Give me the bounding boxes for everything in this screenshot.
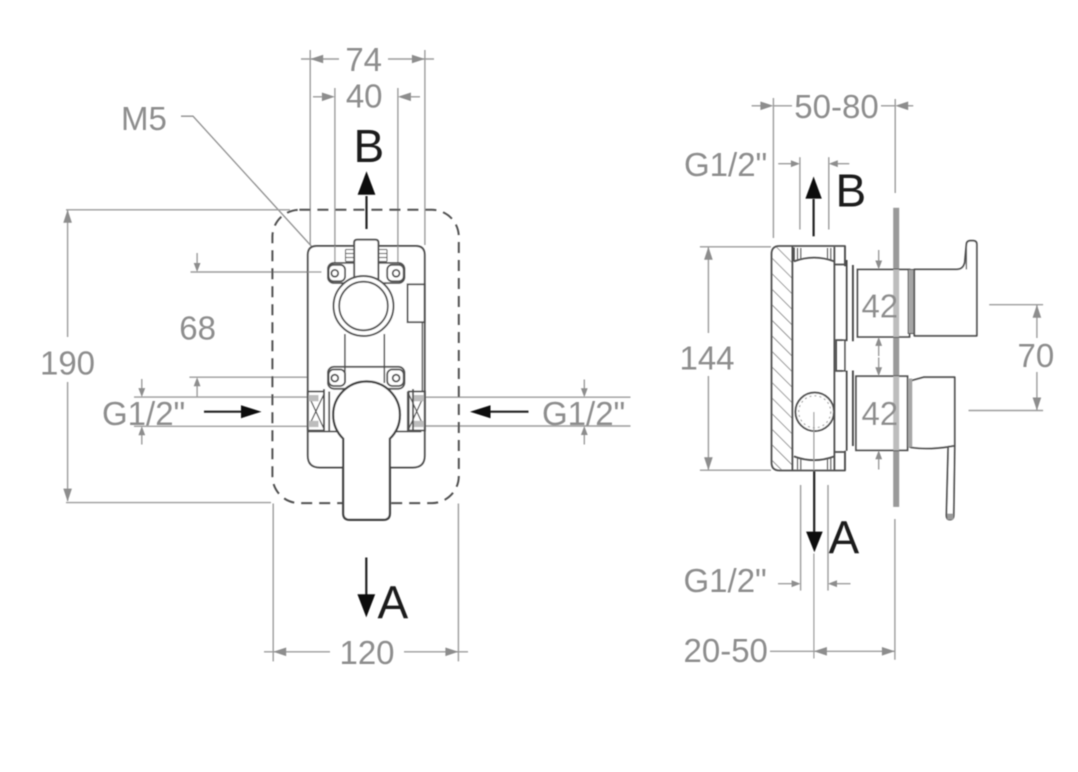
- side view: wall inner edge: [791, 246, 793, 471]
- svg-text:M5: M5: [121, 100, 167, 137]
- side view: wall bracket with hook: [914, 241, 977, 336]
- side view: mounting plate edge bars bottom: [846, 371, 848, 451]
- front view: top outlet stem B: [354, 240, 378, 300]
- front view: dimension 74 line and arrows: [301, 58, 339, 60]
- side view: mounting plate edge bars top: [846, 260, 848, 341]
- front view: dashed installation box outline: [272, 210, 458, 503]
- front view: M5 leader line: [181, 116, 329, 265]
- side view: dimension 50-80 arrows: [752, 105, 761, 107]
- svg-text:144: 144: [679, 340, 734, 377]
- front view: cartridge outer circle: [334, 276, 394, 336]
- front view: lower plate columns: [323, 389, 325, 432]
- side view: outlet B arrow (black): [812, 199, 814, 236]
- front view: lower plate bottom edge: [308, 431, 340, 433]
- side view: dimension 20-50 line: [770, 650, 895, 652]
- svg-text:42: 42: [861, 395, 898, 432]
- side view: wall hatched section outline: [772, 246, 846, 471]
- svg-text:A: A: [378, 577, 409, 629]
- svg-text:74: 74: [345, 41, 382, 78]
- side view: dimension 42 top arrows: [878, 250, 880, 264]
- front view: G1/2 left flow arrow (black): [204, 411, 243, 413]
- side view: dimension 144 line and arrows: [707, 247, 709, 333]
- side view: lever gray edge: [908, 379, 912, 448]
- front view: G1/2 left inlet pipe extension lines: [134, 396, 308, 398]
- side view: dimension 50-80 extension lines: [772, 98, 774, 238]
- side view: wall hatch fill: [772, 247, 792, 470]
- side view: dimension 42 bottom arrows: [878, 358, 880, 371]
- side view: bottom thread fitting: [794, 456, 834, 460]
- front view: right inlet fitting: [409, 392, 425, 431]
- svg-text:42: 42: [861, 288, 898, 325]
- side view: bracket inner line: [965, 247, 967, 269]
- svg-text:50-80: 50-80: [794, 88, 878, 125]
- front view: 68 extension line over body: [308, 271, 322, 273]
- front view: dimension 190 extension lines: [66, 209, 290, 211]
- svg-text:G1/2": G1/2": [684, 146, 767, 183]
- side view: centerline through inlet: [813, 412, 815, 470]
- side view: G1/2 top pipe extension lines: [799, 157, 801, 229]
- side view: top 42 block: [858, 270, 910, 337]
- side view: G1/2 bottom pipe extension lines: [800, 485, 802, 591]
- front view: 40 extension lines over body top: [334, 246, 336, 263]
- svg-text:B: B: [354, 120, 385, 172]
- front view: left inlet fitting: [308, 392, 324, 431]
- front view: bottom mounting plate band: [328, 367, 405, 389]
- side view: centerline below A: [813, 554, 815, 659]
- front view: dimension 120 line and arrows: [264, 651, 330, 653]
- side view: lever handle bar: [946, 446, 954, 520]
- svg-text:190: 190: [40, 345, 95, 382]
- side view: mask of box right mid: [843, 267, 847, 451]
- front view: top-left screw pocket M5: [329, 265, 346, 282]
- front view: G1/2 right inlet pipe extension lines: [421, 396, 631, 398]
- side view: dimension 70 extension lines: [989, 304, 1043, 306]
- front view: dimension 74 extension lines: [309, 50, 311, 245]
- front view: cartridge inner circle: [339, 282, 388, 331]
- front view: right side stop block: [408, 284, 425, 322]
- side view: outlet A arrow (black): [813, 471, 815, 532]
- svg-text:40: 40: [346, 78, 383, 115]
- svg-text:68: 68: [179, 310, 216, 347]
- side view: faceplate bar segments (gray): [893, 208, 899, 270]
- side view: G1/2 bottom tick arrows: [778, 583, 795, 585]
- side view: dimension 20-50 extension line: [894, 519, 896, 660]
- front view: mixer body outline: [308, 246, 425, 468]
- front view: G1/2 right flow arrow (black): [489, 411, 529, 413]
- front view: bottom-left screw pocket: [329, 370, 346, 387]
- front view: dimension 40 extension lines: [334, 88, 336, 263]
- side view: wall bracket gray column: [908, 270, 914, 334]
- front view: thread marks left of stem: [346, 249, 354, 251]
- svg-text:70: 70: [1018, 337, 1055, 374]
- side view: dimension 20-50 arrows: [814, 647, 827, 656]
- front view: dimension 190 line and arrows: [67, 210, 69, 337]
- side view: top thread fitting: [793, 248, 795, 262]
- svg-text:20-50: 20-50: [684, 632, 768, 669]
- side view: dimension 70 line and arrows: [1036, 305, 1038, 338]
- svg-text:A: A: [829, 512, 860, 564]
- front view: top-right screw pocket M5: [387, 265, 404, 282]
- svg-text:G1/2": G1/2": [684, 562, 767, 599]
- side view: dimension 144 extension lines: [700, 246, 771, 248]
- front view: dimension 120 extension lines: [272, 504, 274, 662]
- front view: thread marks right of stem: [379, 249, 387, 251]
- front view: outlet B direction arrow (black): [365, 196, 367, 229]
- front view: top mounting plate band: [328, 263, 405, 283]
- side view: inlet port circle: [796, 393, 834, 431]
- front view: bottom-right screw pocket: [387, 370, 404, 387]
- front view: outlet A direction arrow (black): [365, 558, 367, 597]
- side view: valve body side outline: [833, 247, 835, 470]
- svg-text:120: 120: [339, 634, 394, 671]
- side view: bottom 42 block: [856, 376, 908, 450]
- svg-text:B: B: [836, 165, 867, 217]
- front view: right inner body line: [421, 322, 423, 391]
- side view: G1/2 top tick arrows: [778, 163, 794, 165]
- side view: mid block between plates: [836, 340, 845, 371]
- svg-text:G1/2": G1/2": [542, 395, 625, 432]
- front view: dimension 40 arrows: [313, 96, 322, 98]
- front view: body column lines between circles: [344, 334, 346, 383]
- side view: lever handle body: [908, 377, 955, 448]
- front view: dimension 68 tick arrows: [196, 253, 198, 266]
- svg-text:G1/2": G1/2": [102, 395, 185, 432]
- front view: handle keyhole shape: [333, 381, 400, 519]
- front view: screw row extension lines for 68: [191, 271, 308, 273]
